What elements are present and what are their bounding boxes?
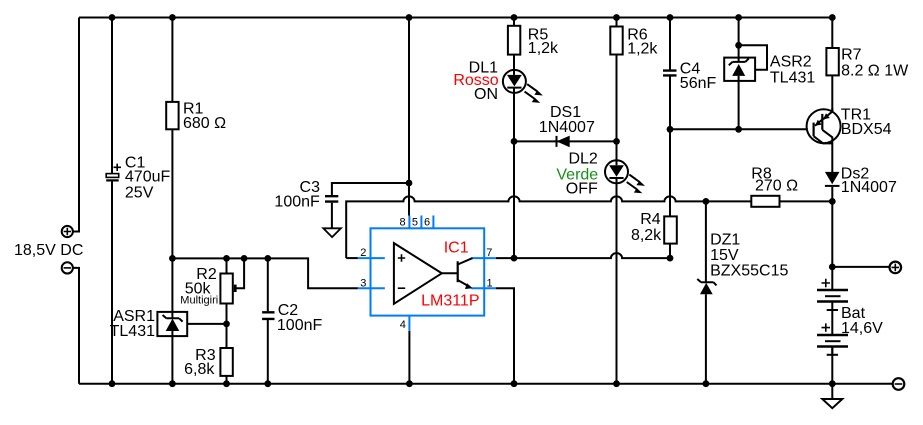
svg-text:1: 1 [487,278,493,290]
wire DS1 row [514,140,617,142]
node R2 row wiper [241,255,248,262]
wire R5 branch [513,18,515,259]
wire C3 top to rail [332,183,409,195]
svg-text:2: 2 [360,247,366,259]
capacitor C3 [325,196,338,201]
node bottom rail C1 [109,380,116,387]
C1 plus sign [114,164,122,171]
svg-text:6: 6 [424,217,430,229]
terminal + input [62,226,73,237]
node top bus C4 [667,14,674,21]
node R2 row pot top [223,255,230,262]
ground C3 [323,228,341,237]
node top bus R7 [829,14,836,21]
wire R2 row [172,258,358,288]
transistor TR1 [807,108,841,143]
svg-text:8.2 Ω 1W: 8.2 Ω 1W [841,62,909,79]
wire ASR1 ref [187,323,226,325]
wire C2 branch [267,258,269,383]
node top bus V+ riser [406,14,413,21]
resistor R3 [220,348,232,376]
svg-text:25V: 25V [125,185,154,202]
node top bus R5 [511,14,518,21]
svg-text:100nF: 100nF [274,194,320,211]
node DS1 left [511,138,518,145]
svg-text:8: 8 [400,217,406,229]
svg-text:TL431: TL431 [110,323,155,340]
node bottom rail ASR1 [169,380,176,387]
LED DL1 [503,70,526,93]
node row B right [667,255,674,262]
node row A right end [829,198,836,205]
node top bus ASR2 [735,14,742,21]
wire C4 branch [669,18,671,259]
svg-text:270 Ω: 270 Ω [755,178,798,195]
svg-text:TL431: TL431 [770,70,815,87]
LED DL2 arrows [627,175,640,190]
svg-text:4: 4 [400,319,406,331]
svg-text:3: 3 [360,278,366,290]
resistor R4 [664,216,677,243]
wire left rail lower [73,268,79,384]
wire top bus [79,17,832,19]
svg-text:680 Ω: 680 Ω [183,115,226,132]
wire left rail upper [73,18,79,232]
svg-text:6,8k: 6,8k [184,361,215,378]
wire R6 branch [616,18,618,384]
LED DL2 [605,160,628,183]
svg-text:LM311P: LM311P [421,293,479,310]
ASR1 TL431 [157,312,187,336]
svg-text:1N4007: 1N4007 [841,179,897,196]
node DS1 right [613,138,620,145]
wire C3 bottom to ground [331,203,333,229]
svg-text:18,5V DC: 18,5V DC [14,242,83,259]
node R2 row R1 [169,255,176,262]
wire battery branch [831,201,833,383]
potentiometer R2 [220,258,244,324]
node bottom rail C2 [264,380,271,387]
wire pin1 net [496,288,514,384]
battery plus signs [822,279,831,332]
node bottom rail pin1 [511,380,518,387]
svg-text:1,2k: 1,2k [627,41,658,58]
node battery tap [829,264,836,271]
wire V+ riser [408,18,410,216]
node bottom rail pin4 [406,380,413,387]
zener DZ1 [697,279,716,285]
wire R3 branch [226,324,228,384]
node ref junction [223,321,230,328]
node top bus R6 [613,14,620,21]
svg-text:DZ1: DZ1 [710,232,740,249]
op-amp U1 LM311P box [358,216,496,331]
node ASR2 loop [735,42,742,49]
node top bus C1 [109,14,116,21]
diode Ds2 [825,172,840,184]
wire row B [496,253,670,258]
node battery bottom [829,380,836,387]
node base row ASR2 [735,126,742,133]
svg-text:5: 5 [412,217,418,229]
resistor R6 [610,27,622,55]
wire pin4 down [408,331,410,384]
wire base row [670,128,814,130]
wire C1 branch [111,18,113,384]
svg-text:15V: 15V [710,247,739,264]
node R2 row C2 [264,255,271,262]
capacitor C2 [262,312,274,319]
svg-text:BZX55C15: BZX55C15 [710,263,788,280]
wire R1 branch [171,18,173,384]
resistor R8 [751,196,779,207]
svg-text:DL2: DL2 [568,150,597,167]
wire DZ1 branch [705,201,707,383]
wire R7 branch [831,18,833,112]
ASR2 TL431 [724,58,755,81]
svg-text:BDX54: BDX54 [841,121,892,138]
node bottom rail DZ1 [703,380,710,387]
svg-text:100nF: 100nF [277,317,323,334]
capacitor C4 [663,71,677,76]
svg-text:8,2k: 8,2k [631,227,662,244]
svg-text:ON: ON [474,86,498,103]
node row B left [511,255,518,262]
node row A DZ1 [703,198,710,205]
wire ASR2 branch [738,18,740,130]
terminal + output [890,262,902,274]
svg-text:R7: R7 [841,47,862,64]
op-amp comparator triangle [394,243,473,304]
resistor R7 [826,48,838,75]
svg-text:7: 7 [486,247,492,259]
svg-text:R4: R4 [640,211,661,228]
node top bus R1 [169,14,176,21]
resistor R5 [508,26,520,55]
battery Bat [817,290,848,355]
wire ASR2 ref loop [739,45,767,70]
svg-text:OFF: OFF [566,181,598,198]
LED DL1 arrows [525,84,538,99]
svg-text:1N4007: 1N4007 [539,119,595,136]
svg-text:1,2k: 1,2k [528,40,559,57]
svg-text:ASR2: ASR2 [770,54,812,71]
wire row A battery sense [346,196,832,258]
terminal - output [893,378,905,390]
node bottom rail DL2 [613,380,620,387]
node C3 rail junction [406,180,413,187]
wire pin2 stub [346,257,358,259]
wire bottom rail [79,383,893,385]
ground battery [822,399,842,408]
node base row C4 [667,126,674,133]
resistor R1 [166,102,178,129]
node bottom rail R3 [223,380,230,387]
wire ground stub [831,384,833,399]
capacitor C1 [106,174,119,178]
svg-text:IC1: IC1 [444,240,469,257]
terminal - input [62,262,73,273]
svg-text:14,6V: 14,6V [841,320,883,337]
diode DS1 [556,136,558,147]
svg-text:56nF: 56nF [680,75,717,92]
svg-text:Multigiri: Multigiri [180,294,218,306]
svg-text:470uF: 470uF [125,169,171,186]
wire battery plus out [832,266,889,268]
wire TR1 collector down [831,143,833,201]
